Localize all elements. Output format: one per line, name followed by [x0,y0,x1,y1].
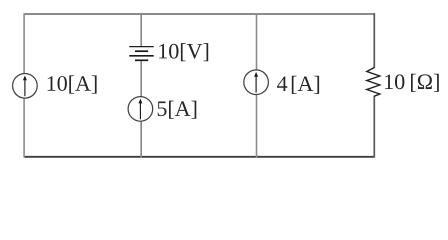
wire 4A branch upper [256,13,258,71]
wire resistor branch upper [373,13,375,68]
wire resistor branch lower [373,96,375,158]
wire battery branch lower [140,120,142,157]
label 4[A] [277,76,319,94]
current source I1 10[A] [13,74,38,99]
wire left branch upper [23,13,25,74]
current source I3 4[A] [244,70,269,95]
wire bottom bus [24,156,374,158]
label 10[Ω] [385,74,439,92]
current source I2 5[A] [128,97,153,122]
wire 4A branch lower [256,94,258,158]
label 10[V] [159,43,208,61]
label 5[A] [158,101,197,119]
wire left branch lower [23,98,25,158]
battery V1 [129,47,153,61]
wire battery branch middle [140,60,142,97]
resistor R1 zigzag [367,68,380,97]
wire top bus [24,13,374,15]
wire battery branch upper [140,13,142,46]
label 10[A] [48,75,97,93]
